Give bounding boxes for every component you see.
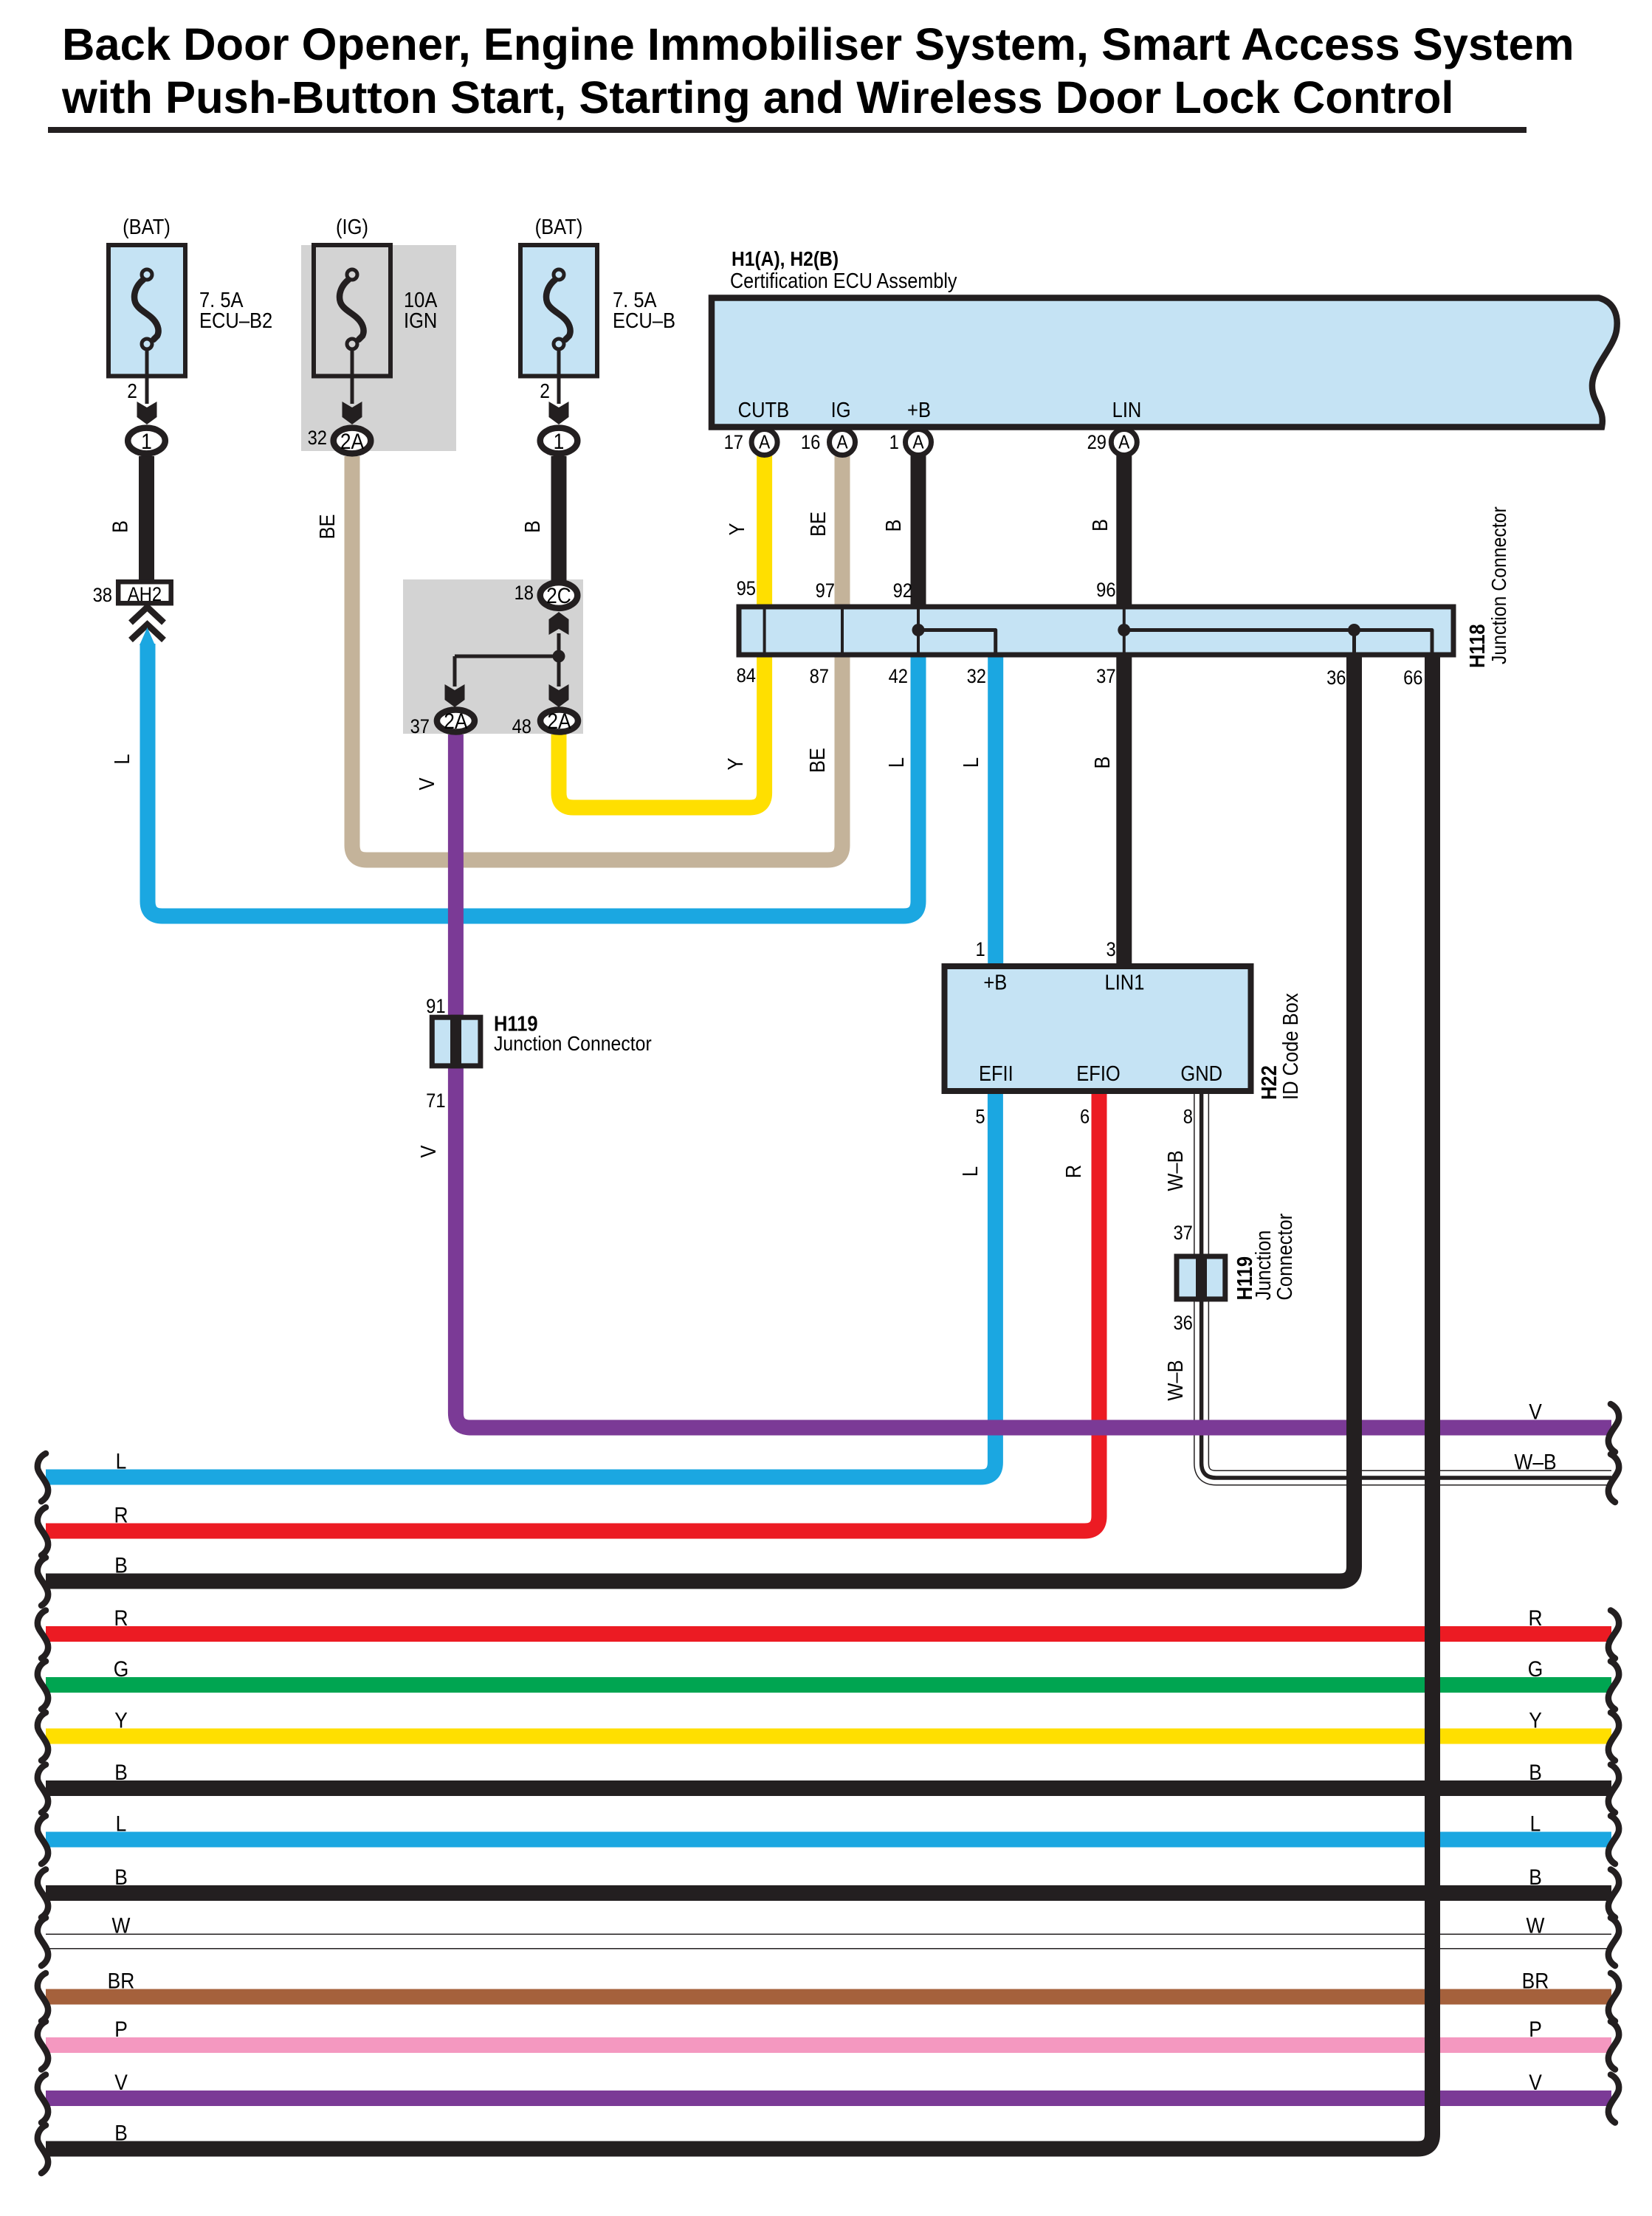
svg-text:16: 16 [801,432,820,454]
svg-text:L: L [109,754,134,764]
svg-text:Y: Y [1529,1707,1542,1732]
svg-text:37: 37 [410,716,430,738]
svg-text:W–B: W–B [1163,1150,1187,1191]
svg-text:EFIO: EFIO [1076,1061,1121,1085]
svg-text:(BAT): (BAT) [123,214,171,238]
svg-text:37: 37 [1173,1222,1192,1245]
svg-text:V: V [114,2069,128,2094]
svg-text:H22: H22 [1256,1065,1281,1100]
svg-text:R: R [1061,1165,1085,1178]
svg-text:32: 32 [967,666,986,688]
svg-text:1: 1 [975,938,985,960]
svg-text:L: L [116,1811,127,1836]
svg-text:R: R [114,1502,128,1527]
svg-text:W–B: W–B [1163,1360,1187,1400]
svg-text:2: 2 [127,379,137,403]
svg-text:B: B [1529,1864,1542,1889]
svg-text:+B: +B [907,397,931,421]
svg-text:(BAT): (BAT) [535,214,583,238]
svg-text:AH2: AH2 [128,584,162,606]
svg-text:R: R [114,1605,128,1630]
svg-text:IG: IG [831,397,851,421]
svg-text:32: 32 [308,427,327,450]
svg-text:92: 92 [893,580,912,602]
svg-text:95: 95 [737,578,756,600]
svg-text:Junction Connector: Junction Connector [1487,506,1511,664]
svg-text:ECU–B: ECU–B [613,308,675,332]
svg-text:B: B [1090,756,1114,768]
svg-text:42: 42 [889,666,908,688]
svg-text:Back Door Opener, Engine Immob: Back Door Opener, Engine Immobiliser Sys… [62,19,1574,70]
svg-text:LIN1: LIN1 [1105,970,1145,994]
svg-text:H118: H118 [1465,624,1489,668]
svg-text:6: 6 [1080,1106,1090,1128]
svg-text:L: L [116,1448,127,1473]
svg-text:8: 8 [1183,1106,1193,1128]
svg-text:84: 84 [737,665,756,687]
svg-text:Junction: Junction [1250,1231,1275,1301]
svg-text:17: 17 [724,432,743,454]
svg-text:W: W [1527,1913,1545,1938]
svg-text:BE: BE [805,512,830,537]
svg-text:L: L [957,1166,982,1177]
svg-text:A: A [1118,432,1130,453]
svg-text:A: A [912,432,924,453]
svg-text:GND: GND [1180,1061,1222,1085]
svg-text:G: G [114,1656,129,1681]
svg-text:B: B [1529,1759,1542,1784]
svg-text:37: 37 [1096,666,1115,688]
svg-text:36: 36 [1326,667,1346,689]
svg-text:1: 1 [554,428,565,453]
svg-text:V: V [1529,2069,1542,2094]
svg-text:(IG): (IG) [336,214,368,238]
svg-text:L: L [958,757,982,768]
svg-text:48: 48 [512,716,531,738]
svg-text:B: B [108,520,132,533]
svg-text:G: G [1528,1656,1543,1681]
svg-text:B: B [520,520,544,533]
svg-text:V: V [416,1145,440,1158]
svg-text:2A: 2A [340,428,364,453]
svg-text:2A: 2A [444,708,467,733]
svg-text:with Push-Button Start, Starti: with Push-Button Start, Starting and Wir… [61,72,1454,123]
svg-text:Y: Y [114,1707,128,1732]
svg-text:18: 18 [514,582,534,605]
svg-text:2: 2 [540,379,550,403]
svg-text:B: B [1087,519,1112,531]
svg-text:5: 5 [975,1106,985,1128]
svg-text:Y: Y [724,523,748,535]
svg-text:71: 71 [426,1090,445,1112]
svg-text:LIN: LIN [1112,397,1142,421]
svg-text:A: A [836,432,848,453]
svg-text:A: A [759,432,771,453]
svg-text:L: L [1530,1811,1541,1836]
svg-text:3: 3 [1106,938,1115,960]
svg-text:B: B [881,519,905,531]
svg-text:B: B [114,2120,128,2145]
svg-text:BR: BR [1522,1968,1549,1993]
svg-text:BE: BE [314,514,339,539]
svg-text:R: R [1528,1605,1542,1630]
svg-text:1: 1 [889,432,899,454]
svg-text:W: W [112,1913,131,1938]
svg-text:BE: BE [805,748,829,773]
svg-text:ID Code Box: ID Code Box [1278,993,1302,1100]
svg-text:66: 66 [1403,667,1422,689]
svg-text:V: V [414,777,438,791]
svg-text:Certification ECU Assembly: Certification ECU Assembly [730,269,957,293]
svg-text:Junction Connector: Junction Connector [494,1032,652,1056]
svg-text:2A: 2A [547,708,571,733]
svg-text:P: P [114,2016,128,2041]
svg-text:H1(A), H2(B): H1(A), H2(B) [732,247,839,271]
svg-text:P: P [1529,2016,1542,2041]
svg-text:38: 38 [93,585,112,607]
svg-text:2C: 2C [546,582,571,608]
svg-text:IGN: IGN [404,308,437,332]
svg-text:Connector: Connector [1272,1214,1296,1301]
svg-text:B: B [114,1864,128,1889]
svg-text:ECU–B2: ECU–B2 [199,308,272,332]
svg-text:Y: Y [723,757,747,770]
svg-text:V: V [1529,1399,1542,1424]
svg-text:96: 96 [1096,579,1115,602]
svg-text:97: 97 [816,580,835,602]
svg-text:CUTB: CUTB [738,397,789,421]
svg-text:B: B [114,1759,128,1784]
svg-text:1: 1 [141,428,152,453]
svg-text:EFII: EFII [979,1061,1013,1085]
svg-text:36: 36 [1173,1312,1192,1334]
svg-text:87: 87 [810,666,829,688]
svg-text:W–B: W–B [1514,1449,1556,1474]
svg-text:BR: BR [108,1968,135,1993]
svg-text:B: B [114,1552,128,1577]
svg-text:91: 91 [426,996,445,1018]
svg-text:+B: +B [983,970,1007,994]
svg-text:L: L [884,757,908,768]
svg-text:29: 29 [1087,432,1107,454]
